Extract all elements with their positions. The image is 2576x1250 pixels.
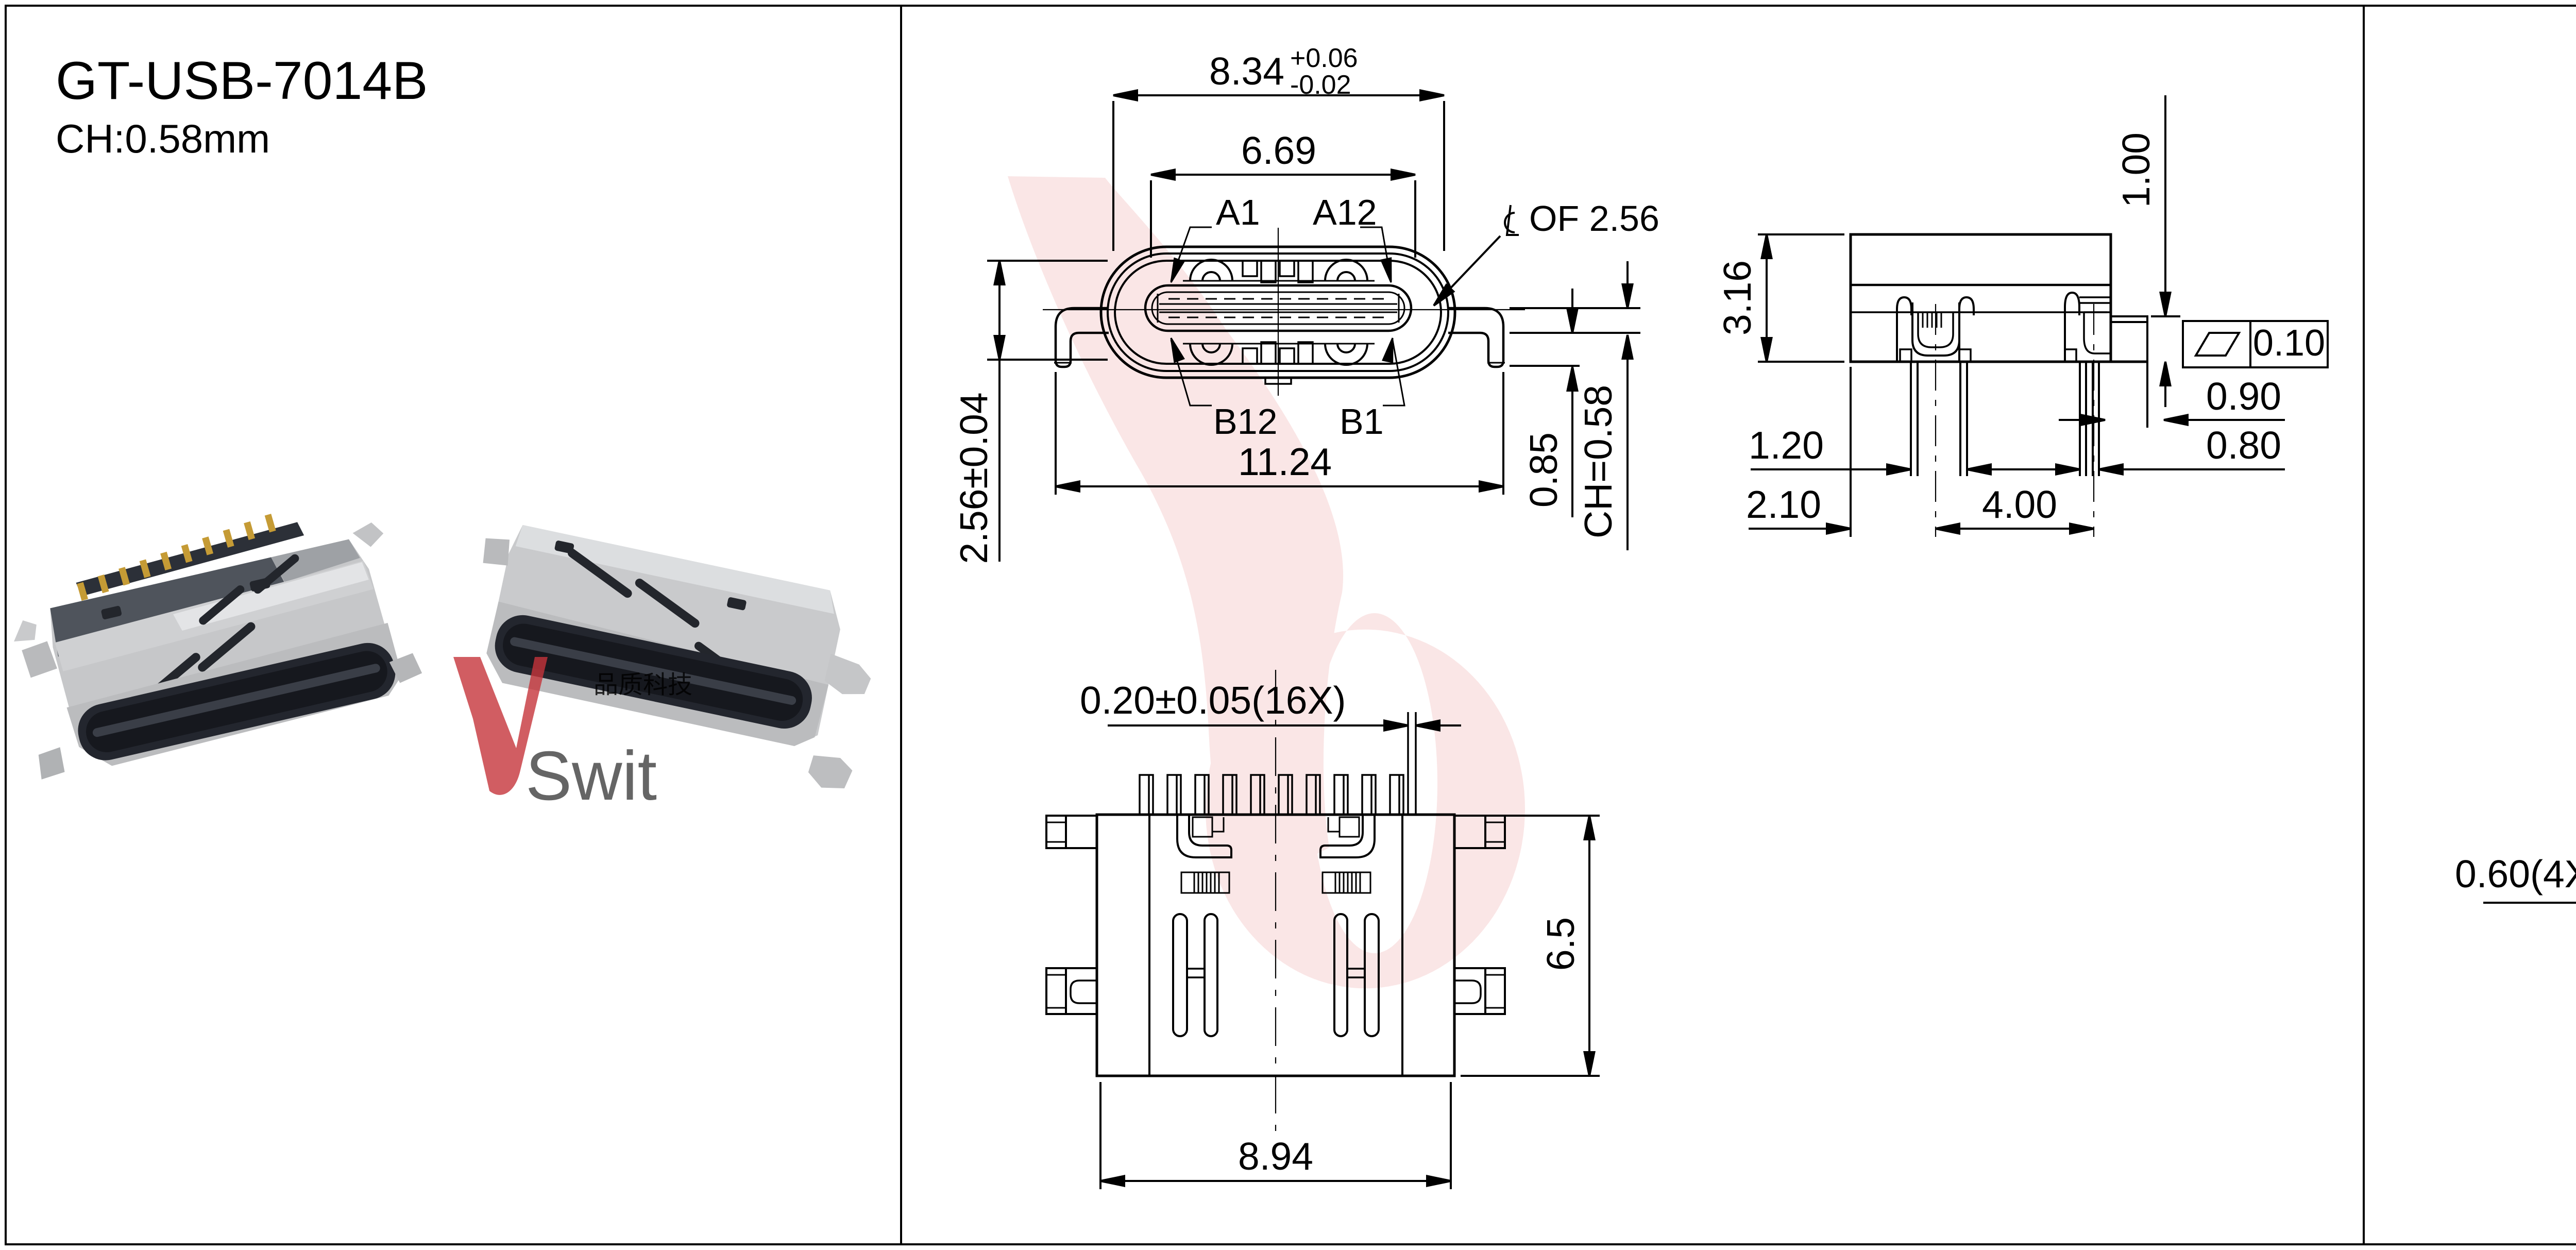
centerline symbol OF 2.56 bbox=[1430, 205, 1519, 309]
hook small rects left bbox=[1193, 817, 1224, 837]
svg-text:A12: A12 bbox=[1313, 192, 1377, 232]
vertical centerline dashed bbox=[1275, 670, 1276, 1134]
left legs below bbox=[1911, 362, 1967, 476]
dimension 0.90 bbox=[2059, 362, 2285, 428]
PCB LAYOUT bbox=[2455, 92, 2576, 1163]
bottom bump chord line bbox=[1183, 343, 1375, 345]
svg-text:0.20±0.05(16X): 0.20±0.05(16X) bbox=[1080, 679, 1346, 722]
left leg foot line bbox=[1054, 362, 1072, 364]
capsule H bar right bbox=[1347, 969, 1365, 977]
svg-text:B1: B1 bbox=[1340, 401, 1384, 442]
watermark b stem bbox=[1008, 176, 1343, 889]
top comb rects bbox=[1243, 261, 1313, 282]
svg-text:CH=0.58: CH=0.58 bbox=[1577, 385, 1620, 538]
svg-text:0.60(4X): 0.60(4X) bbox=[2455, 852, 2576, 896]
svg-text:品质科技: 品质科技 bbox=[594, 671, 692, 699]
SIDE VIEW bbox=[1716, 95, 2328, 537]
dimension CH=0.58 bbox=[1510, 261, 1640, 550]
left solder leg bbox=[1056, 308, 1109, 367]
svg-text:B12: B12 bbox=[1213, 401, 1278, 442]
bottom bump left outer arc bbox=[1190, 344, 1232, 365]
dimension 0.60(4X) bottom bbox=[2483, 800, 2576, 922]
svg-text:1.00: 1.00 bbox=[2114, 132, 2158, 208]
hatched box left bbox=[1181, 872, 1229, 893]
capsule H bar left bbox=[1187, 969, 1205, 977]
left bracket inner U2 bbox=[1918, 312, 1953, 347]
svg-text:Swit: Swit bbox=[526, 737, 657, 815]
lug bottom-left bbox=[1046, 968, 1097, 1014]
tongue mid lines bbox=[1159, 303, 1397, 305]
top bump right inner arc bbox=[1337, 272, 1355, 281]
panel divider right bbox=[2363, 6, 2365, 1244]
svg-text:OF 2.56: OF 2.56 bbox=[1529, 198, 1659, 239]
panel divider left bbox=[900, 6, 902, 1244]
hook small rects right bbox=[1328, 817, 1359, 837]
svg-text:3.16: 3.16 bbox=[1716, 260, 1759, 335]
top bump left inner arc bbox=[1202, 272, 1220, 281]
top bump right outer arc bbox=[1325, 260, 1367, 281]
left leg centerline bbox=[1935, 304, 1936, 537]
right leg foot line bbox=[1487, 362, 1505, 364]
svg-text:2.10: 2.10 bbox=[1746, 483, 1821, 526]
svg-text:2.56±0.04: 2.56±0.04 bbox=[952, 392, 995, 564]
tongue outline bbox=[1145, 285, 1411, 331]
svg-text:0.85: 0.85 bbox=[1522, 432, 1565, 508]
bottom center notch bbox=[1265, 378, 1291, 384]
dimension 0.80 and 1.20 bbox=[1751, 465, 2285, 475]
lug top-right bbox=[1454, 816, 1505, 848]
svg-text:1.20: 1.20 bbox=[1749, 424, 1824, 467]
hatched box right bbox=[1323, 872, 1370, 893]
right connector photo bbox=[449, 518, 888, 793]
dimension 6.5 bbox=[1461, 816, 1600, 1076]
body upper line bbox=[1851, 284, 2111, 286]
bottom bump right outer arc bbox=[1325, 344, 1367, 365]
label B1 leader bbox=[1383, 337, 1404, 406]
top bump left outer arc bbox=[1190, 260, 1232, 281]
lug bottom-right bbox=[1454, 968, 1505, 1014]
watermark b bowl ring bbox=[1206, 613, 1525, 988]
dimension 2.10 and 4.00 bbox=[1749, 367, 2094, 537]
left connector photo bbox=[0, 489, 427, 782]
top bump chord line bbox=[1183, 280, 1375, 282]
svg-text:+0.06: +0.06 bbox=[1290, 43, 1358, 73]
PHOTO of connectors bbox=[0, 489, 888, 815]
photo watermark red logo bbox=[453, 657, 548, 795]
label B12 leader bbox=[1166, 336, 1212, 406]
svg-text:11.24: 11.24 bbox=[1238, 440, 1332, 483]
tongue contact dashes bottom bbox=[1168, 317, 1388, 318]
svg-text:A1: A1 bbox=[1216, 192, 1260, 232]
dimension 0.85 bbox=[1510, 289, 1580, 517]
dimension 8.94 bbox=[1100, 1082, 1451, 1189]
hook detail right bbox=[1320, 815, 1375, 857]
BOTTOM VIEW bbox=[1046, 670, 1600, 1189]
left bracket inner U bbox=[1912, 302, 1959, 356]
inner vertical right bbox=[1401, 815, 1403, 1076]
capsule slots right pair bbox=[1334, 914, 1347, 1036]
svg-text:8.94: 8.94 bbox=[1238, 1135, 1313, 1178]
dimension 2.56±0.04 bbox=[987, 261, 1108, 562]
body mid line bbox=[1851, 311, 2111, 313]
right bracket lines bbox=[2079, 297, 2111, 303]
dimension 11.24 front bbox=[1056, 372, 1503, 495]
lug top-left bbox=[1046, 816, 1097, 848]
body outline bbox=[1097, 815, 1454, 1076]
dimension 6.69 bbox=[1151, 170, 1415, 258]
vertical centerline bbox=[1278, 228, 1279, 396]
tall measured pin bbox=[1408, 712, 1416, 815]
left bracket comb bbox=[1923, 312, 1941, 328]
hook detail left bbox=[1177, 815, 1231, 857]
svg-text:8.34: 8.34 bbox=[1209, 49, 1284, 93]
right bracket inner bbox=[2084, 312, 2111, 353]
tongue inner outline bbox=[1152, 292, 1404, 324]
svg-text:4.00: 4.00 bbox=[1982, 483, 2057, 526]
bottom bump right inner arc bbox=[1337, 344, 1355, 352]
tongue end ticks bbox=[1157, 294, 1159, 323]
right bracket foot bbox=[2065, 349, 2076, 362]
dimension 3.16 bbox=[1758, 234, 1844, 362]
svg-text:0.10: 0.10 bbox=[2253, 323, 2325, 364]
svg-text:CH:0.58mm: CH:0.58mm bbox=[56, 116, 270, 161]
horizontal centerline bbox=[1043, 309, 1525, 310]
shell middle stadium bbox=[1108, 254, 1448, 371]
shell inner stadium bbox=[1115, 261, 1441, 364]
bottom line extension bbox=[1851, 361, 2147, 363]
pin teeth comb bbox=[1140, 775, 1403, 815]
svg-text:0.80: 0.80 bbox=[2206, 424, 2281, 467]
FRONT VIEW bbox=[952, 43, 1659, 564]
capsule slots left pair bbox=[1173, 914, 1187, 1036]
dimension 0.20±0.05(16X) bbox=[1108, 721, 1461, 731]
flatness frame 0.10 bbox=[2183, 321, 2328, 367]
right legs below bbox=[2080, 362, 2099, 476]
shell outer stadium bbox=[1101, 247, 1455, 378]
bottom bump left inner arc bbox=[1202, 344, 1220, 352]
right solder leg bbox=[1448, 308, 1503, 367]
tongue contact dashes top bbox=[1168, 298, 1388, 300]
inner vertical left bbox=[1148, 815, 1150, 1076]
left bracket feet bbox=[1900, 349, 1971, 362]
dimension 8.34 +0.06/-0.02 bbox=[1113, 91, 1444, 251]
svg-text:0.90: 0.90 bbox=[2206, 375, 2281, 418]
svg-text:-0.02: -0.02 bbox=[1290, 70, 1351, 100]
svg-text:1.40(2X): 1.40(2X) bbox=[2573, 663, 2576, 811]
bottom comb rects bbox=[1243, 342, 1313, 364]
svg-text:6.69: 6.69 bbox=[1241, 129, 1316, 172]
label A12 leader bbox=[1360, 227, 1396, 283]
label A1 leader bbox=[1166, 227, 1212, 284]
right bracket outline bbox=[2065, 293, 2079, 362]
right leg centerline bbox=[2093, 304, 2094, 537]
svg-text:6.5: 6.5 bbox=[1539, 917, 1582, 971]
PINK WATERMARK bbox=[1008, 176, 1525, 988]
dimension 1.00 bbox=[2151, 95, 2180, 407]
right step bbox=[2111, 316, 2147, 362]
svg-text:GT-USB-7014B: GT-USB-7014B bbox=[56, 51, 428, 111]
body outline bbox=[1851, 234, 2111, 362]
left bracket outline bbox=[1897, 297, 1974, 362]
